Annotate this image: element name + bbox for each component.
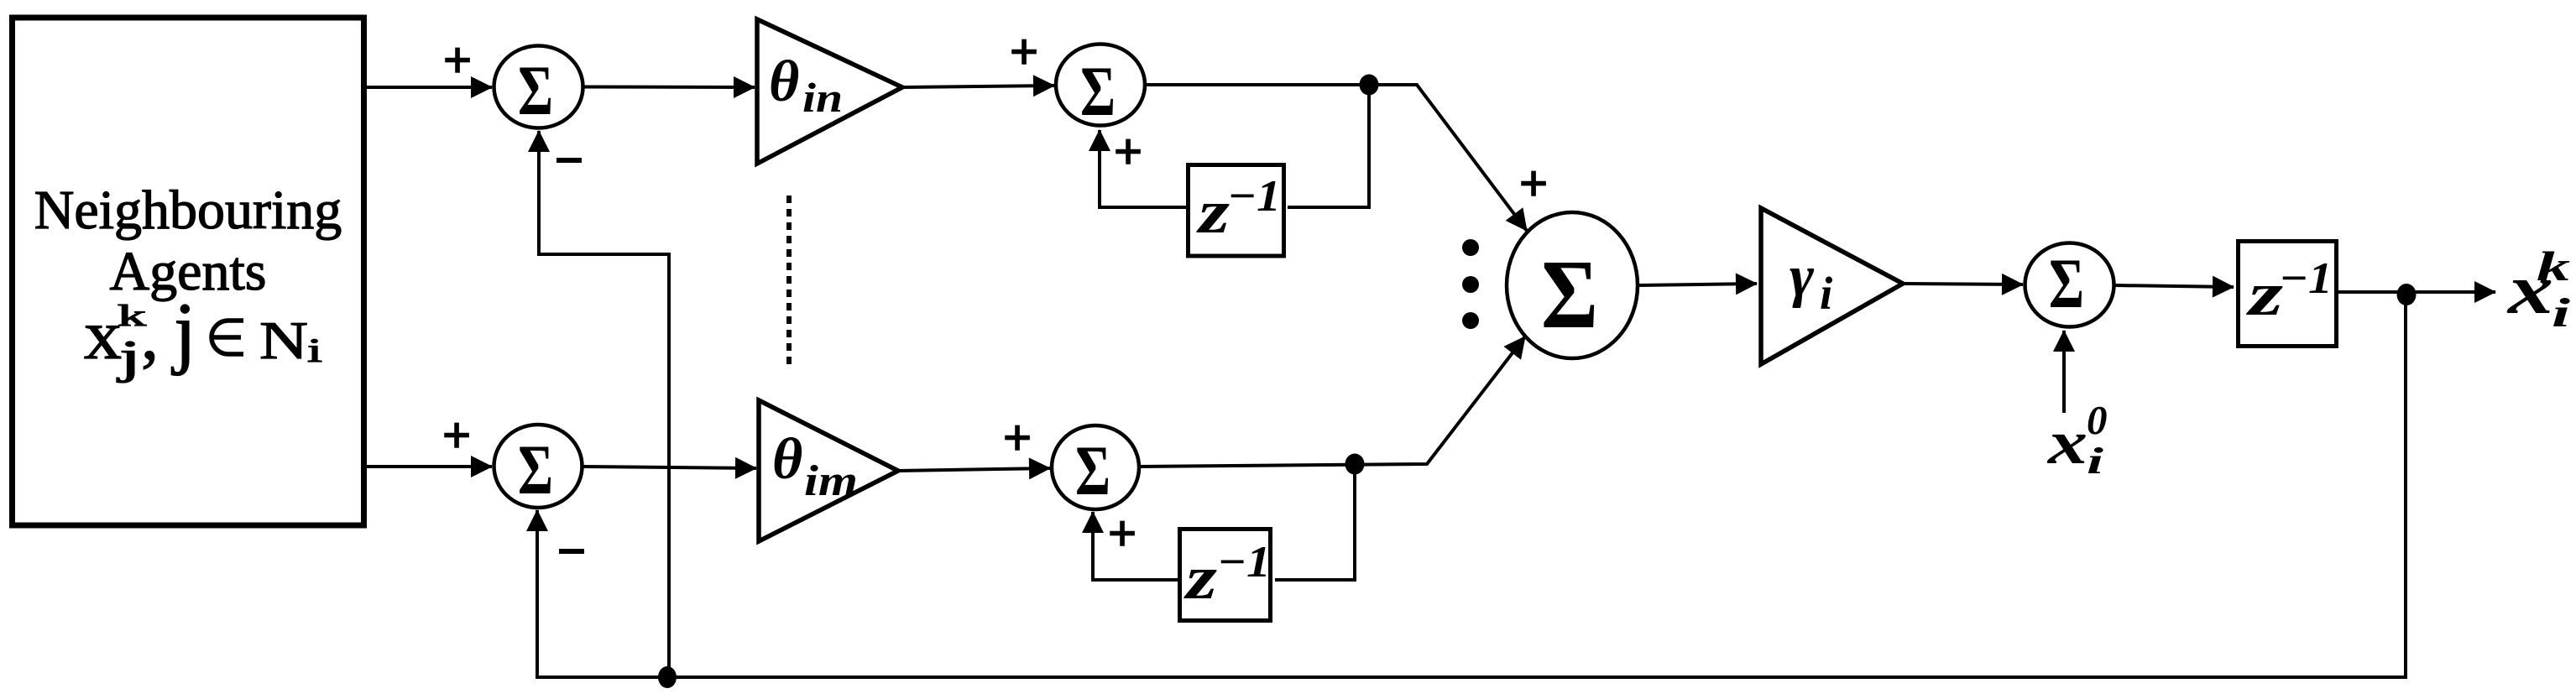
svg-text:in: in [802, 74, 843, 121]
svg-text:+: + [1108, 506, 1136, 561]
svg-text:j: j [171, 286, 196, 376]
svg-text:z: z [2245, 260, 2284, 329]
svg-text:j: j [117, 331, 141, 383]
svg-text:,: , [141, 296, 159, 374]
svg-text:0: 0 [2087, 397, 2108, 443]
svg-text:Σ: Σ [1541, 239, 1598, 349]
svg-text:N: N [259, 310, 308, 370]
svg-text:i: i [307, 331, 322, 369]
svg-text:+: + [443, 33, 472, 87]
svg-text:Σ: Σ [2049, 244, 2084, 323]
svg-text:−1: −1 [2279, 254, 2333, 303]
svg-text:γ: γ [1790, 244, 1815, 309]
svg-text:−1: −1 [1217, 538, 1271, 587]
svg-text:Neighbouring: Neighbouring [34, 180, 342, 241]
svg-text:im: im [804, 457, 858, 505]
svg-text:+: + [1010, 24, 1038, 79]
svg-text:z: z [1183, 544, 1217, 613]
svg-text:Σ: Σ [518, 51, 553, 130]
svg-text:+: + [1519, 156, 1548, 211]
svg-text:i: i [2552, 290, 2571, 336]
svg-text:Σ: Σ [1080, 52, 1116, 131]
svg-text:θ: θ [772, 427, 802, 492]
svg-text:Σ: Σ [518, 430, 553, 509]
svg-text:−1: −1 [1227, 172, 1281, 221]
svg-text:z: z [1195, 178, 1230, 247]
svg-text:+: + [1003, 410, 1032, 465]
svg-text:x: x [84, 296, 122, 374]
svg-text:Σ: Σ [1075, 431, 1110, 510]
svg-text:k: k [2537, 243, 2570, 290]
svg-text:x: x [2047, 409, 2087, 477]
svg-text:θ: θ [769, 50, 799, 114]
svg-text:i: i [1820, 268, 1833, 319]
svg-text:+: + [1114, 124, 1142, 179]
svg-text:i: i [2087, 441, 2104, 482]
svg-text:+: + [442, 408, 471, 462]
